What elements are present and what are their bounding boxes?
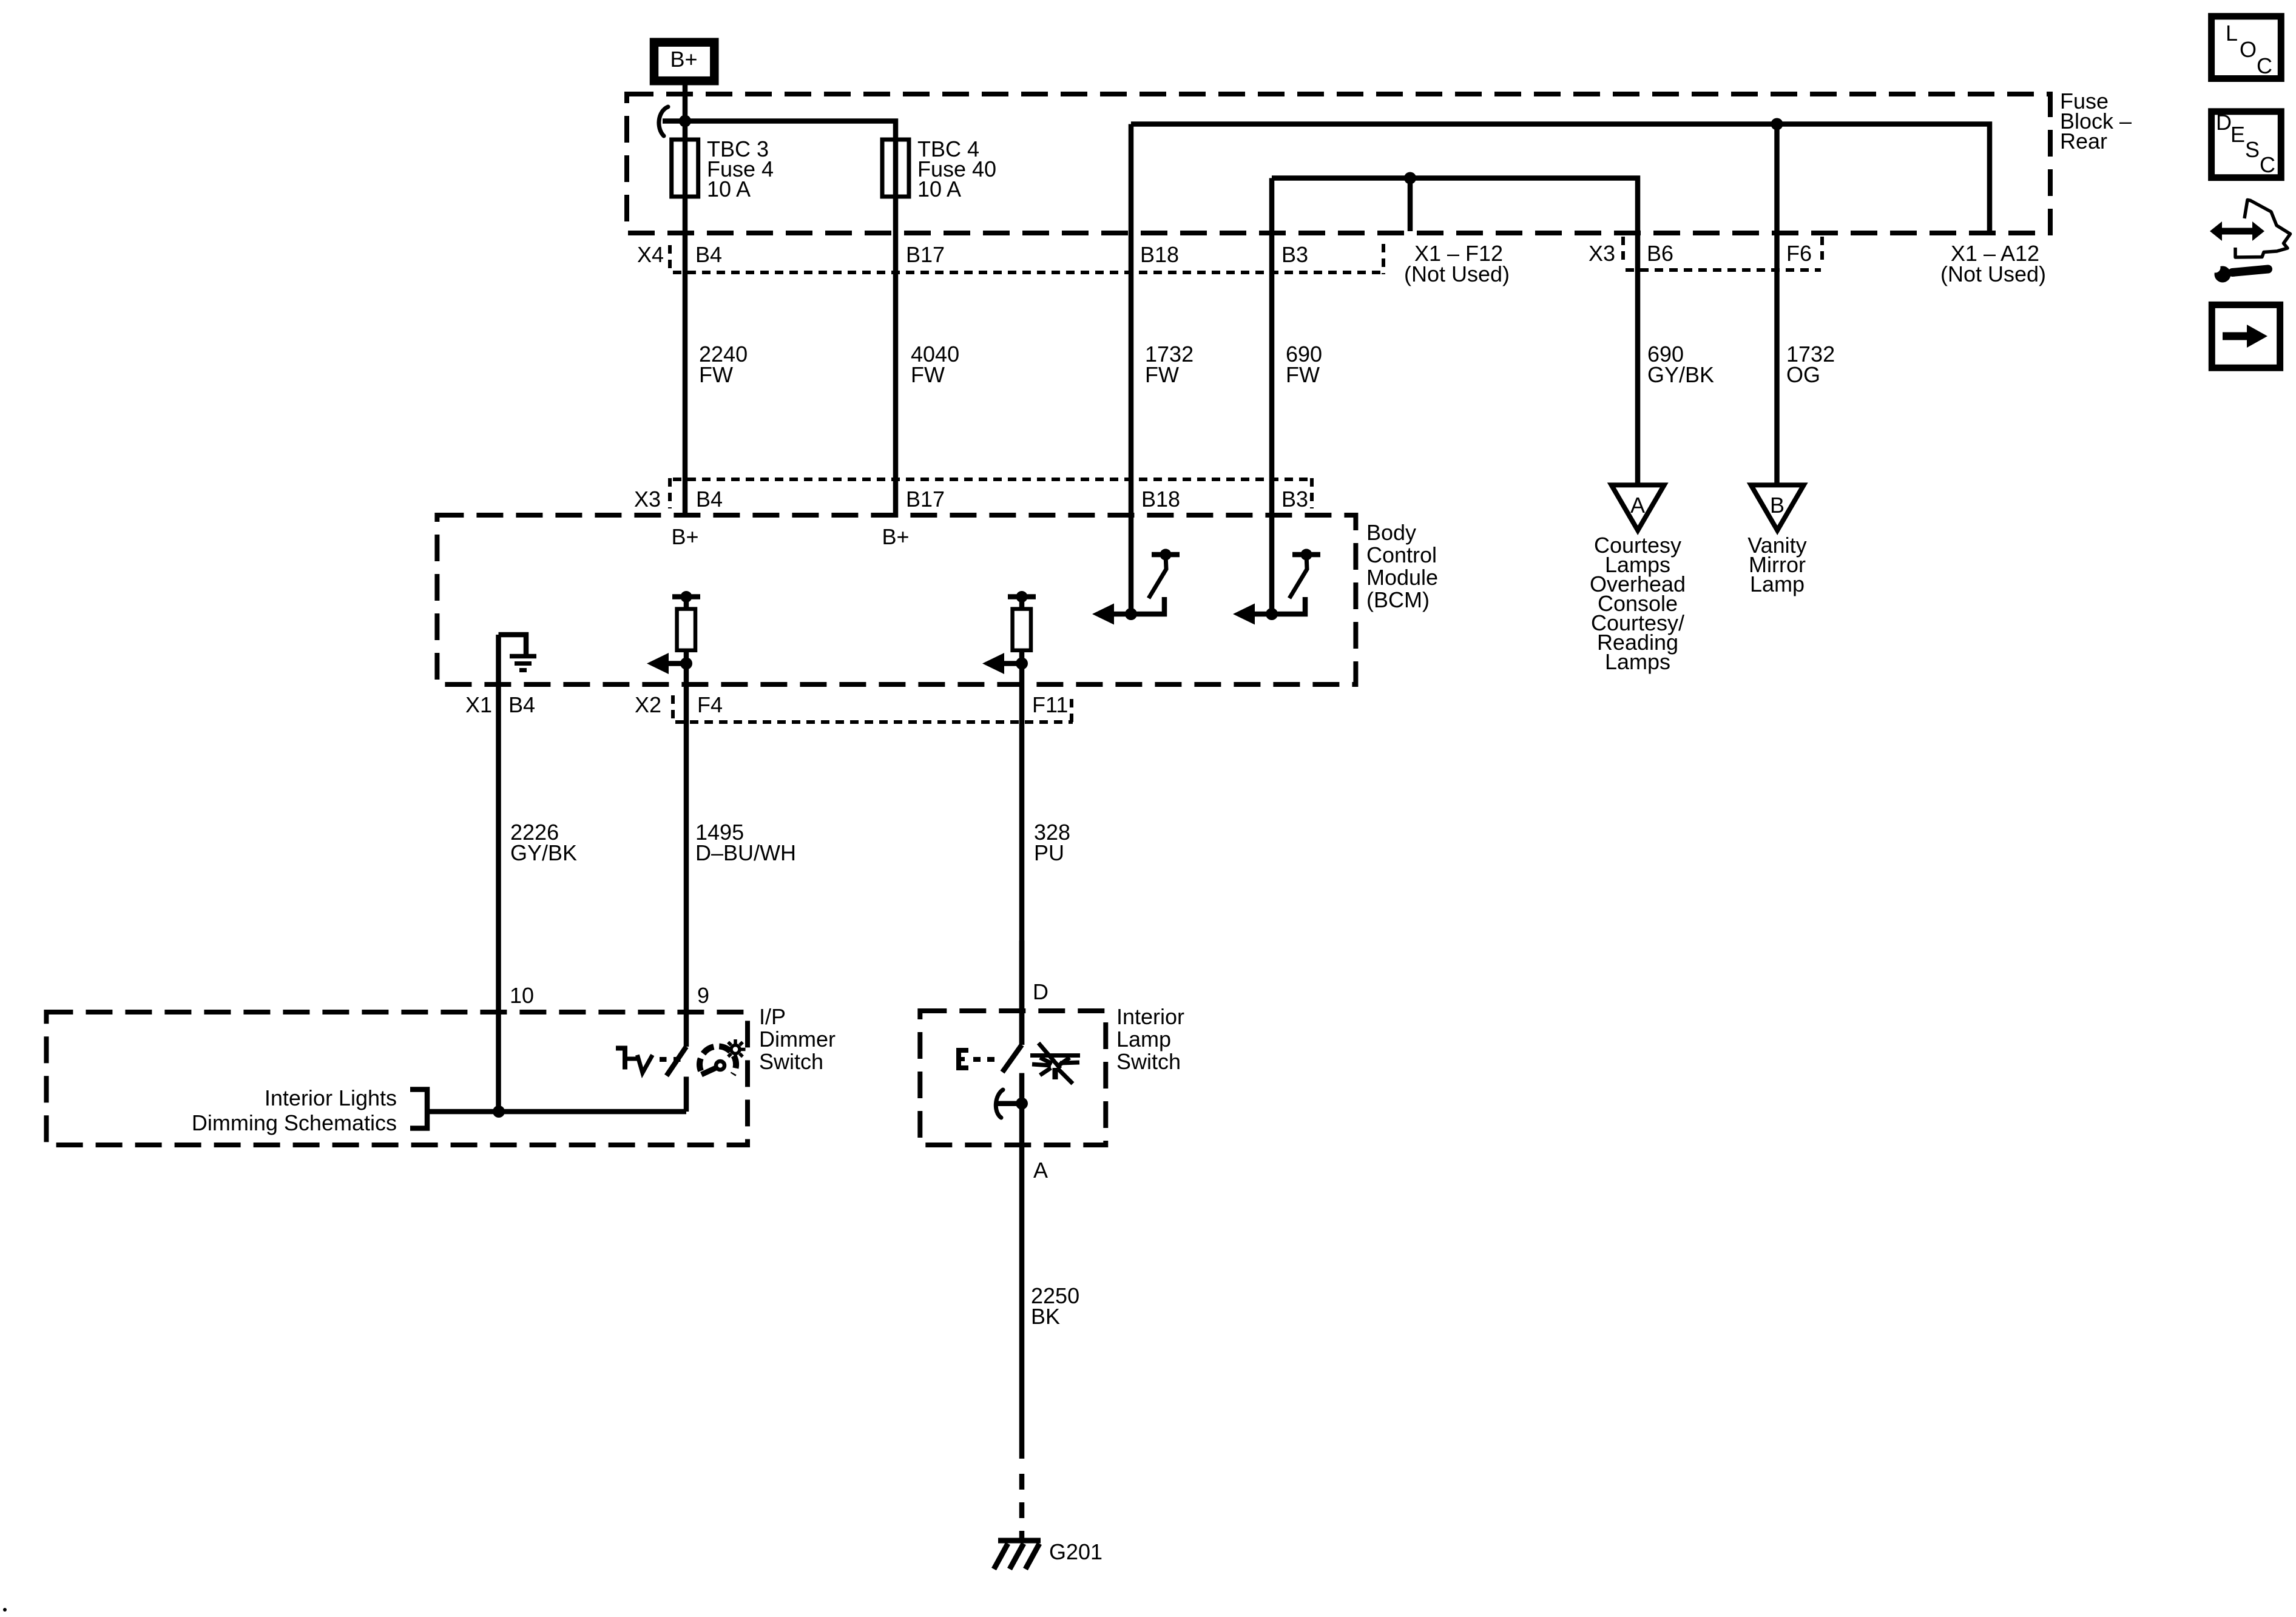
svg-text:X2: X2 bbox=[635, 692, 661, 717]
wire B3 feed horizontal to B6 bbox=[1272, 178, 1638, 487]
svg-text:X3: X3 bbox=[1589, 241, 1615, 266]
svg-text:F4: F4 bbox=[697, 692, 723, 717]
BCM switch driver B18 bbox=[1092, 549, 1180, 625]
svg-text:E: E bbox=[2230, 122, 2245, 147]
svg-text:C: C bbox=[2257, 53, 2272, 78]
svg-text:GY/BK: GY/BK bbox=[510, 840, 577, 865]
dimmer gauge icon bbox=[700, 1039, 745, 1075]
svg-text:(Not Used): (Not Used) bbox=[1404, 262, 1510, 286]
svg-text:FW: FW bbox=[699, 362, 733, 387]
sidebar diagnosis icon wrench bbox=[2210, 263, 2269, 283]
courtesy lamps triangle A bbox=[1612, 485, 1664, 530]
svg-text:Lamps: Lamps bbox=[1605, 649, 1670, 674]
dome lamp icon bbox=[1030, 1043, 1080, 1084]
vanity mirror triangle B bbox=[1751, 485, 1804, 530]
label Interior Lamp Switch bbox=[1116, 1004, 1184, 1074]
svg-text:FW: FW bbox=[1145, 362, 1179, 387]
svg-text:Interior: Interior bbox=[1116, 1004, 1184, 1029]
svg-text:BK: BK bbox=[1031, 1304, 1060, 1329]
dashed wire to ground splice bbox=[1019, 1474, 1025, 1539]
connector separator ticks BCM bottom bbox=[671, 695, 675, 723]
svg-text:B6: B6 bbox=[1647, 241, 1673, 266]
fuse block dashed box bbox=[627, 94, 2050, 233]
connector row X1/X2 labels under BCM bbox=[465, 692, 1068, 717]
I/P dimmer switch dashed box (interior lights dimming schematics) bbox=[46, 1012, 748, 1145]
wire 328 PU into lamp switch bbox=[1019, 940, 1025, 1045]
label I/P Dimmer Switch bbox=[759, 1004, 836, 1074]
wire X1-B4 down to dimmer circuit bbox=[496, 635, 501, 1112]
svg-text:L: L bbox=[2226, 21, 2238, 46]
wire stub to X1-F12 bbox=[1408, 178, 1413, 232]
svg-text:D: D bbox=[2216, 110, 2232, 135]
B+ power symbol box bbox=[654, 42, 714, 81]
svg-text:C: C bbox=[2260, 152, 2275, 177]
svg-text:G201: G201 bbox=[1049, 1539, 1102, 1564]
BCM switch driver B3 bbox=[1233, 549, 1320, 625]
fuse TBC3 Fuse 4 10A bbox=[672, 140, 698, 197]
lamp feed hook branch bbox=[996, 1090, 1022, 1118]
connector bracket dotted line BCM top bbox=[673, 478, 1312, 481]
connector row X3 labels above BCM bbox=[634, 487, 1308, 511]
sidebar diagnosis icon outline bbox=[2235, 200, 2291, 258]
node at F6 branch bbox=[1771, 118, 1783, 130]
wire dimmer output horizontal bbox=[427, 1109, 686, 1115]
svg-text:Lamp: Lamp bbox=[1750, 572, 1805, 596]
label Courtesy Lamps Overhead Console Courtesy/ Reading Lamps bbox=[1590, 533, 1686, 674]
svg-text:I/P: I/P bbox=[759, 1004, 786, 1029]
svg-text:Switch: Switch bbox=[759, 1049, 823, 1074]
node lamp feed junction bbox=[1016, 1098, 1028, 1110]
svg-text:9: 9 bbox=[697, 983, 709, 1008]
svg-text:X4: X4 bbox=[637, 242, 664, 267]
bracket to dimming schematics bbox=[410, 1090, 427, 1129]
svg-text:10: 10 bbox=[510, 983, 534, 1008]
svg-text:X1: X1 bbox=[465, 692, 492, 717]
svg-text:B4: B4 bbox=[696, 487, 723, 511]
BCM internal ground bbox=[499, 635, 537, 670]
dimmer switch contact bbox=[684, 1077, 689, 1112]
mechanical link E dashes bbox=[956, 1048, 994, 1070]
svg-text:F6: F6 bbox=[1786, 241, 1812, 266]
page artifact dot bbox=[3, 1608, 7, 1612]
wire B18 feed: long horizontal to X1-A12 bbox=[1131, 124, 1990, 232]
connector bracket dotted line X3 row bbox=[1626, 268, 1821, 272]
svg-text:10 A: 10 A bbox=[917, 177, 961, 201]
svg-text:A: A bbox=[1033, 1158, 1048, 1183]
label Interior Lights Dimming Schematics bbox=[192, 1085, 397, 1135]
svg-text:B4: B4 bbox=[695, 242, 722, 267]
node at 2226 wire junction bbox=[493, 1106, 505, 1118]
svg-text:B+: B+ bbox=[671, 524, 698, 549]
node at X1-F12 branch bbox=[1404, 172, 1416, 184]
BCM dashed box bbox=[437, 515, 1356, 684]
sidebar diagnosis icon double arrow bbox=[2210, 221, 2264, 241]
interior lamp switch dashed box bbox=[920, 1011, 1106, 1145]
svg-text:Control: Control bbox=[1366, 542, 1437, 567]
wire F6 vertical to vanity lamp bbox=[1774, 124, 1780, 487]
wire B3 vertical bbox=[1269, 178, 1275, 615]
svg-text:F11: F11 bbox=[1032, 692, 1068, 717]
sidebar LOC box bbox=[2212, 16, 2281, 79]
svg-text:B17: B17 bbox=[906, 242, 945, 267]
svg-text:B: B bbox=[1770, 493, 1784, 518]
svg-text:B3: B3 bbox=[1281, 487, 1308, 511]
label Vanity Mirror Lamp bbox=[1747, 533, 1806, 596]
svg-text:Body: Body bbox=[1366, 520, 1416, 545]
svg-text:OG: OG bbox=[1786, 362, 1820, 387]
svg-text:B+: B+ bbox=[882, 524, 909, 549]
svg-text:Dimming Schematics: Dimming Schematics bbox=[192, 1110, 397, 1135]
svg-text:B4: B4 bbox=[508, 692, 535, 717]
sidebar DESC box bbox=[2212, 110, 2281, 178]
ground G201 bbox=[994, 1541, 1041, 1569]
svg-text:(Not Used): (Not Used) bbox=[1940, 262, 2046, 286]
svg-text:Switch: Switch bbox=[1116, 1049, 1181, 1074]
svg-text:Module: Module bbox=[1366, 565, 1438, 590]
connector bracket dotted line BCM bottom bbox=[675, 720, 1073, 724]
svg-text:B+: B+ bbox=[670, 47, 697, 72]
svg-text:O: O bbox=[2240, 37, 2257, 62]
wire B+ feed down through TBC3 fuse to BCM X3-B4 bbox=[683, 85, 688, 518]
svg-text:FW: FW bbox=[911, 362, 945, 387]
svg-text:B18: B18 bbox=[1141, 487, 1180, 511]
dimmer rheostat symbol bbox=[616, 1046, 652, 1073]
label Fuse Block - Rear bbox=[2060, 89, 2132, 154]
node junction at B+ bus bbox=[679, 115, 691, 127]
connector separator ticks BCM top bbox=[668, 478, 672, 508]
svg-text:Interior Lights: Interior Lights bbox=[265, 1085, 397, 1110]
svg-text:D: D bbox=[1033, 979, 1048, 1004]
svg-text:FW: FW bbox=[1286, 362, 1320, 387]
mechanical link dashes dimmer bbox=[660, 1057, 667, 1062]
dimmer switch blade bbox=[667, 1047, 687, 1076]
svg-text:B17: B17 bbox=[906, 487, 945, 511]
lamp switch blade bbox=[1002, 1045, 1022, 1072]
svg-text:A: A bbox=[1630, 493, 1645, 518]
svg-text:Rear: Rear bbox=[2060, 129, 2107, 154]
svg-text:B18: B18 bbox=[1140, 242, 1179, 267]
connector bracket dotted line row1 bbox=[673, 271, 1382, 274]
wire branch to TBC4 fuse bbox=[685, 121, 896, 518]
fuse TBC4 Fuse 40 10A bbox=[882, 140, 909, 197]
svg-text:Lamp: Lamp bbox=[1116, 1027, 1171, 1052]
connector row X4 labels under fuse block bbox=[637, 241, 1812, 267]
svg-text:10 A: 10 A bbox=[707, 177, 751, 201]
bus hook symbol in fuse block bbox=[659, 107, 685, 136]
lamp switch contact wire down to G201 bbox=[1019, 1073, 1025, 1459]
connector separator ticks row1 bbox=[668, 245, 672, 274]
svg-text:Dimmer: Dimmer bbox=[759, 1027, 836, 1052]
BCM pull-up resistor F11 bbox=[982, 591, 1036, 1045]
svg-text:PU: PU bbox=[1034, 840, 1064, 865]
svg-text:GY/BK: GY/BK bbox=[1647, 362, 1714, 387]
svg-text:D–BU/WH: D–BU/WH bbox=[695, 840, 796, 865]
wire B18 vertical bbox=[1129, 124, 1134, 615]
svg-text:B3: B3 bbox=[1281, 242, 1308, 267]
label Body Control Module (BCM) bbox=[1366, 520, 1438, 612]
svg-text:X3: X3 bbox=[634, 487, 661, 511]
BCM pull-up resistor F4 bbox=[647, 591, 700, 1047]
sidebar forward arrow box bbox=[2212, 305, 2280, 368]
svg-text:(BCM): (BCM) bbox=[1366, 587, 1430, 612]
svg-text:S: S bbox=[2245, 137, 2260, 162]
